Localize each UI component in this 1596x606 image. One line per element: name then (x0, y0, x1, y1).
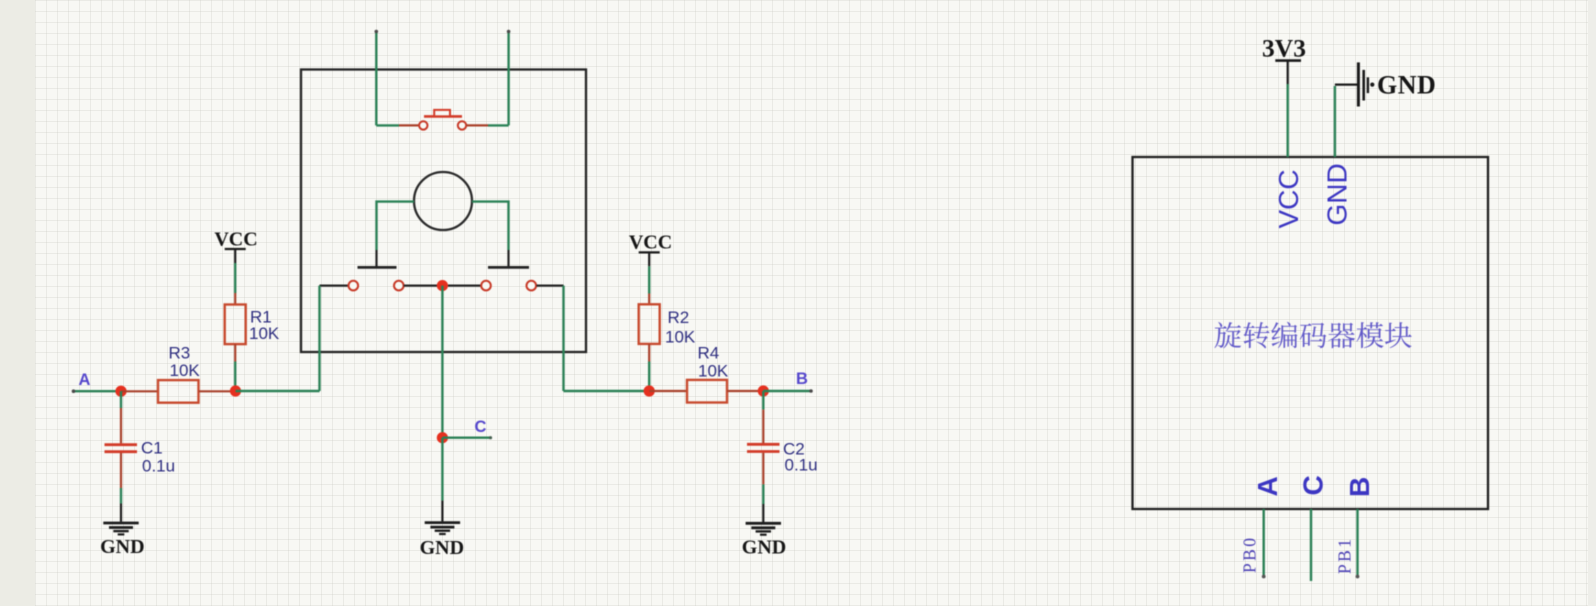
contact lever right (507, 250, 509, 266)
svg-text:PB0: PB0 (1240, 536, 1260, 573)
svg-text:PB1: PB1 (1335, 537, 1355, 574)
svg-text:10K: 10K (249, 324, 280, 343)
module title 旋转编码器模块 (1215, 322, 1412, 348)
capacitor C2 (762, 391, 764, 410)
svg-text:B: B (1344, 477, 1375, 497)
svg-text:A: A (79, 371, 91, 389)
resistor R1 (225, 305, 246, 345)
wire to encoder leg A (236, 390, 320, 392)
rotor circle (414, 172, 472, 230)
svg-text:GND: GND (742, 537, 786, 559)
wire net C (442, 437, 491, 439)
junction B (758, 385, 769, 396)
wire (234, 263, 236, 293)
svg-text:GND: GND (1377, 71, 1436, 100)
wire GND pin (1334, 86, 1336, 157)
encoder box U2 (301, 70, 586, 353)
wire net B (763, 390, 811, 392)
module box U1 (1133, 157, 1489, 509)
wire rotor left (377, 202, 415, 250)
wire encoder B leg down (562, 286, 564, 391)
svg-text:GND: GND (420, 537, 464, 559)
junction A (115, 386, 126, 397)
ground flag GND (top) (1335, 83, 1357, 85)
svg-text:0.1u: 0.1u (142, 457, 175, 476)
resistor R2 (639, 304, 660, 344)
contact lever left (375, 250, 377, 266)
svg-text:GND: GND (100, 536, 144, 558)
svg-text:B: B (796, 370, 808, 388)
svg-text:3V3: 3V3 (1262, 34, 1306, 63)
svg-text:10K: 10K (665, 328, 696, 347)
svg-text:VCC: VCC (1273, 169, 1304, 228)
capacitor C1 (120, 391, 122, 408)
ground GND (center) (425, 521, 460, 524)
wire encoder leg B to junction (564, 390, 650, 392)
resistor R4 (649, 390, 687, 392)
svg-text:C: C (1298, 475, 1329, 495)
wire rotor right (472, 202, 509, 250)
wire encoder common leg down (441, 286, 443, 438)
svg-text:A: A (1252, 476, 1283, 496)
wire (648, 344, 650, 362)
svg-text:C: C (475, 418, 487, 436)
wire (234, 344, 236, 361)
svg-text:VCC: VCC (214, 229, 257, 251)
svg-text:R2: R2 (668, 308, 690, 327)
resistor R3 (121, 390, 158, 392)
svg-text:R4: R4 (698, 344, 720, 363)
wire pin A bottom (1262, 509, 1264, 576)
svg-text:GND: GND (1322, 163, 1353, 225)
wire common down (441, 438, 443, 501)
svg-text:C1: C1 (141, 439, 163, 458)
svg-text:0.1u: 0.1u (785, 456, 818, 475)
push button switch (encoder shaft switch) (376, 124, 399, 126)
wire encoder pin A top (375, 31, 377, 125)
svg-text:VCC: VCC (629, 232, 672, 254)
wire net A (73, 390, 121, 392)
junction C (437, 432, 448, 443)
ground GND (C2) (746, 522, 781, 525)
wire encoder pin B top (507, 31, 509, 125)
encoder pin row (320, 285, 349, 287)
svg-text:10K: 10K (170, 361, 201, 380)
wire encoder A leg down (318, 286, 320, 391)
ground GND (C1) (103, 522, 138, 525)
junction R2/R4 (644, 385, 655, 396)
wire pin C bottom (1310, 509, 1312, 581)
junction R1/R3 (230, 385, 241, 396)
wire (648, 266, 650, 293)
svg-text:10K: 10K (698, 362, 729, 381)
junction common pin (437, 280, 448, 291)
wire VCC pin (1286, 84, 1288, 157)
svg-text:R3: R3 (169, 344, 191, 363)
wire pin B bottom (1356, 509, 1358, 576)
